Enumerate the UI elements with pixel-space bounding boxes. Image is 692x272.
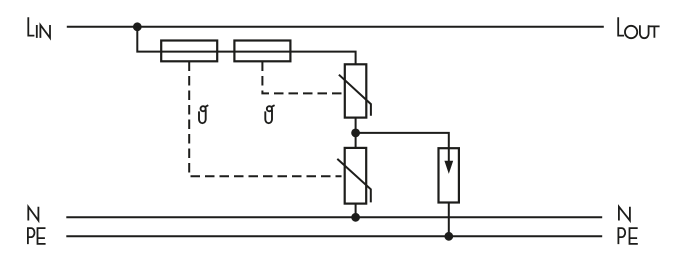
label PE right: [618, 228, 637, 244]
wire N line: [66, 216, 602, 218]
label N left: [28, 207, 38, 221]
node B varistor junction: [351, 129, 360, 138]
wire RV1 to node B to RV2: [355, 118, 357, 148]
label N right: [619, 207, 630, 221]
node C on N line: [351, 213, 360, 222]
fuse F2: [234, 41, 290, 62]
varistor RV2: [337, 148, 371, 204]
thermal link dashed from F2 to varistor RV1: [262, 62, 343, 94]
fuse F1: [161, 41, 217, 62]
node D on PE line: [444, 232, 453, 241]
spark gap F3: [439, 148, 459, 202]
wire L line top: [67, 26, 604, 28]
wire branch from node A through fuses: [137, 27, 355, 65]
wire spark gap to PE line: [448, 203, 450, 237]
varistor RV1: [339, 64, 371, 117]
label PE left: [28, 228, 46, 244]
thermal symbol theta 1: [199, 105, 208, 123]
thermal symbol theta 2: [265, 105, 274, 123]
thermal link dashed from F1 to varistor RV2: [189, 62, 341, 177]
wire PE line: [66, 235, 602, 237]
label L_OUT: [618, 17, 659, 38]
wire node B to spark gap F3: [356, 133, 449, 148]
wire RV2 to N line: [355, 204, 357, 218]
label L_IN: [28, 17, 50, 38]
node A junction on L line: [133, 22, 142, 31]
